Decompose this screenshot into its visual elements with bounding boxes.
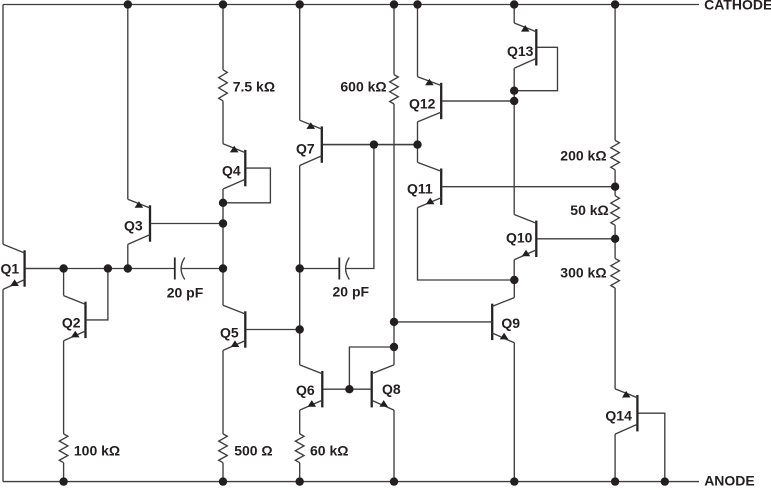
svg-text:ANODE: ANODE (704, 472, 755, 488)
transistor Q6 (321, 371, 323, 407)
wire Q10 emitter down to junction (513, 260, 515, 280)
wire Q12/Q11 collector junction down (417, 145, 419, 163)
wire Q2 emitter down (63, 341, 65, 434)
junction anode/Q9 emitter (510, 477, 518, 485)
wire Q12 collector to Q7-base junction (417, 122, 419, 145)
transistor Q12 (440, 83, 442, 119)
junction cathode/7.5k (219, 0, 227, 8)
wire left edge lower (Q1 emitter to anode rail) (2, 289, 4, 481)
wire 50k to 300k (614, 225, 616, 258)
wire cathode rail to 200k (614, 5, 616, 141)
junction anode/60k (296, 477, 304, 485)
wire cap C2 to Q7 base (riser) (345, 145, 374, 269)
svg-text:Q7: Q7 (296, 141, 315, 157)
resistor 600 kOhm (390, 75, 399, 104)
svg-text:CATHODE: CATHODE (704, 0, 771, 13)
svg-text:Q2: Q2 (62, 315, 81, 331)
wire 500 to anode rail (222, 463, 224, 482)
wire Q12 base line (442, 100, 514, 102)
junction Q7 base / Q12 collector (413, 140, 421, 148)
svg-text:Q8: Q8 (382, 381, 401, 397)
resistor 100 kOhm (59, 434, 68, 463)
transistor Q9 (491, 304, 493, 340)
wire left edge upper (Q1 collector to cathode rail) (2, 5, 4, 245)
wire cathode rail to 7.5k (222, 5, 224, 70)
junction Q3 base column (219, 219, 227, 227)
junction Q4 collector-base (219, 199, 227, 207)
junction anode/Q8 emitter (390, 477, 398, 485)
svg-text:20 pF: 20 pF (333, 284, 370, 300)
junction cathode/Q7 emitter (296, 0, 304, 8)
junction cathode/Q3 emitter (124, 0, 132, 8)
resistor 200 kOhm (611, 140, 620, 170)
svg-text:Q10: Q10 (506, 230, 533, 246)
svg-text:60 kΩ: 60 kΩ (310, 443, 348, 459)
junction anode/Q14 collector (611, 477, 619, 485)
transistor Q3 (149, 205, 151, 241)
wire 7.5k to Q4 emitter (222, 101, 224, 144)
junction Q9 base / 600k column (390, 318, 398, 326)
wire Q2 collector to node (63, 269, 65, 296)
resistor 300 kOhm (611, 258, 620, 288)
transistor Q13 (diode-connected) (535, 29, 537, 65)
svg-text:600 kΩ: 600 kΩ (340, 79, 386, 95)
wire Q8 emitter to anode rail (393, 410, 395, 482)
transistor Q2 (84, 302, 86, 338)
transistor Q14 (636, 395, 638, 431)
junction node/Q7 collector column (296, 264, 304, 272)
junction node/Q2 collector (59, 264, 67, 272)
wire cathode rail to Q12 emitter (417, 5, 419, 77)
wire Q5 base node down to Q6 collector (299, 330, 301, 365)
wire 100k to anode rail (63, 463, 65, 482)
wire 300k down to Q14 emitter (614, 288, 616, 389)
wire Q13 collector down through Q12 base junction to Q10 (513, 68, 515, 214)
svg-text:Q12: Q12 (409, 95, 436, 111)
junction cathode/600k (390, 0, 398, 8)
svg-text:200 kΩ: 200 kΩ (560, 147, 606, 163)
transistor Q10 (535, 221, 537, 257)
svg-text:Q9: Q9 (501, 315, 520, 331)
junction cathode/Q12 emitter (413, 0, 421, 8)
junction Q5 base / Q7 collector / Q6 collector (296, 325, 304, 333)
wire Q11 emitter down and right to Q10/Q9 junction (418, 208, 515, 280)
svg-text:Q13: Q13 (507, 43, 534, 59)
wire Q4 collector / Q3 base column to node (222, 189, 224, 269)
junction anode/Q14 base (661, 477, 669, 485)
svg-text:Q11: Q11 (407, 181, 433, 197)
resistor 60 kOhm (295, 434, 304, 463)
junction node/cap C1/Q5 column (219, 264, 227, 272)
junction Q8 collector / Q6-Q8 base riser (390, 343, 398, 351)
wire Q5 emitter down (222, 350, 224, 434)
junction Q6-Q8 base (345, 385, 353, 393)
junction node/Q3 collector (124, 264, 132, 272)
wire junction down to Q9 collector (513, 280, 515, 298)
wire node to Q5 collector (222, 269, 224, 306)
transistor Q1 (23, 250, 25, 286)
transistor Q7 (321, 126, 323, 162)
wire Q3 collector to node (127, 244, 129, 268)
svg-text:Q4: Q4 (222, 163, 241, 179)
svg-text:300 kΩ: 300 kΩ (560, 265, 606, 281)
wire node segment cap C1 to Q3/Q4/Q5 column (181, 268, 224, 270)
wire Q7 base line (323, 144, 418, 146)
svg-text:Q1: Q1 (1, 261, 20, 277)
svg-text:500 Ω: 500 Ω (234, 443, 272, 459)
capacitor C2 20 pF (338, 258, 340, 280)
svg-text:Q6: Q6 (296, 382, 315, 398)
svg-text:7.5 kΩ: 7.5 kΩ (233, 79, 275, 95)
wire 60k to anode rail (299, 463, 301, 482)
resistor 7.5 kOhm (219, 70, 228, 101)
svg-text:Q3: Q3 (124, 218, 143, 234)
svg-text:100 kΩ: 100 kΩ (74, 443, 120, 459)
transistor Q4 (diode-connected) (244, 150, 246, 186)
junction Q7 base / cap C2 riser (370, 140, 378, 148)
wire node to cap C2 (300, 268, 340, 270)
svg-text:20 pF: 20 pF (167, 284, 204, 300)
transistor Q11 (440, 169, 442, 205)
svg-text:Q5: Q5 (220, 325, 239, 341)
wire 600k down to Q8 collector junction (393, 104, 395, 347)
junction anode/100k (59, 477, 67, 485)
junction Q10 emitter / Q11 emitter / Q9 collector (510, 276, 518, 284)
wire cathode rail to Q7 emitter (299, 5, 301, 121)
wire 200k to 50k (614, 170, 616, 196)
svg-text:Q14: Q14 (605, 408, 632, 424)
junction anode/500 (219, 477, 227, 485)
transistor Q8 (371, 371, 373, 407)
junction Q13 collector-base (510, 87, 518, 95)
wire cathode rail to 600k (393, 5, 395, 75)
wire Q6 emitter down (299, 410, 301, 434)
junction cathode/Q13 emitter (510, 0, 518, 8)
junction Q11 base / 200k-50k (611, 183, 619, 191)
wire ANODE bottom rail (3, 481, 699, 483)
resistor 500 Ohm (219, 434, 228, 463)
wire Q14 collector to anode rail (614, 434, 616, 482)
wire cathode rail to Q13 emitter (513, 5, 515, 24)
resistor 50 kOhm (611, 196, 620, 226)
junction cathode/200k (611, 0, 619, 8)
junction node/Q2 base (104, 264, 112, 272)
wire Q8 collector stub (393, 347, 395, 365)
junction Q12 base (510, 97, 518, 105)
transistor Q5 (244, 311, 246, 347)
wire compensation node (y=268) left segment (26, 268, 175, 270)
wire CATHODE top rail (3, 4, 699, 6)
svg-text:50 kΩ: 50 kΩ (570, 202, 608, 218)
junction Q10 base / 50k-300k (611, 235, 619, 243)
wire cathode rail to Q3 emitter (127, 5, 129, 200)
wire Q9 emitter to anode rail (513, 343, 515, 482)
capacitor C1 20 pF (174, 258, 176, 280)
wire Q7 collector down to Q5 base node (299, 166, 301, 330)
